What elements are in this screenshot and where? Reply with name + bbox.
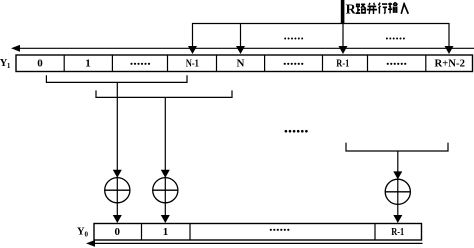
svg-text:1: 1 — [85, 57, 91, 69]
svg-text:0: 0 — [114, 226, 120, 238]
svg-text:R: R — [346, 2, 357, 17]
svg-text:0: 0 — [37, 57, 43, 69]
svg-text:N-1: N-1 — [186, 57, 199, 69]
svg-text:1: 1 — [7, 62, 11, 70]
svg-text:R-1: R-1 — [336, 57, 349, 69]
svg-text:R+N-2: R+N-2 — [434, 57, 465, 69]
svg-text:R-1: R-1 — [391, 226, 404, 238]
svg-text:1: 1 — [163, 226, 169, 238]
svg-text:0: 0 — [85, 231, 89, 239]
svg-text:N: N — [237, 57, 245, 69]
